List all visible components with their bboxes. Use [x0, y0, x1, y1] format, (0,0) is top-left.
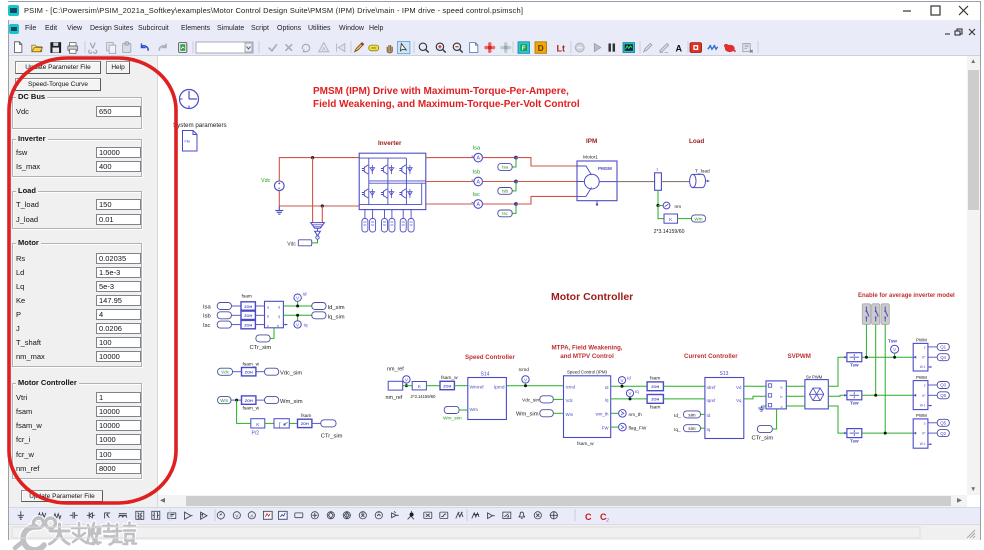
wire ZOH to abc-dq Isc: [255, 324, 264, 326]
window buttons: [895, 4, 975, 17]
wire to rpm gain: [658, 206, 664, 219]
label box Vdc_sim: [265, 368, 279, 375]
zero-order-hold theta: [298, 413, 312, 428]
wire dc bus bottom: [279, 191, 359, 206]
zero-order-hold Wm: [242, 396, 260, 412]
svg-text:CTr_sim: CTr_sim: [752, 436, 774, 442]
svg-text:Isc: Isc: [502, 211, 509, 216]
svg-text:nm_ref: nm_ref: [386, 395, 403, 401]
gain block rpm to rad: [412, 382, 426, 391]
node junction on bottom bus: [321, 204, 324, 207]
svg-text:d: d: [278, 305, 280, 309]
svg-text:V: V: [296, 296, 300, 301]
svg-text:2*3.14159/60: 2*3.14159/60: [654, 229, 685, 235]
wire ZOH to CTr_sim label: [312, 422, 321, 424]
voltage sensor on dc bus: [311, 223, 325, 240]
svg-text:A: A: [476, 180, 480, 186]
wire comparator out row1: [862, 356, 913, 358]
node junction phase c: [514, 202, 518, 206]
svg-text:K: K: [256, 422, 260, 428]
svg-text:0*: 0*: [922, 394, 926, 398]
svg-text:ZOH: ZOH: [245, 399, 253, 403]
svg-text:Vq: Vq: [736, 398, 742, 403]
wire switch1 down: [865, 325, 867, 358]
wire mux b to svpwm: [786, 395, 805, 397]
ammeter Ic: [472, 200, 483, 209]
wire comparator out row3: [862, 432, 913, 434]
gain block rpm-to-rad: [664, 214, 678, 223]
mtpa control block: [564, 376, 611, 438]
svg-text:Wm_sim: Wm_sim: [443, 416, 462, 422]
wire Vq to mux: [744, 396, 766, 399]
label box wm source: [218, 397, 231, 404]
label box CTr_sim theta: [256, 335, 270, 342]
svg-text:ZOH: ZOH: [244, 314, 252, 318]
wire zoh to Idref: [663, 385, 705, 387]
svg-text:ZOH: ZOH: [244, 305, 252, 309]
wire wmsim to block: [553, 412, 563, 414]
dc source Vdc: [261, 178, 284, 191]
svg-text:Vd: Vd: [736, 385, 742, 390]
svg-text:K: K: [669, 217, 673, 223]
wire gain to wm label: [678, 218, 692, 220]
svg-text:PWM: PWM: [916, 413, 927, 418]
svg-text:Tsw: Tsw: [850, 363, 859, 368]
svg-text:Inverter: Inverter: [378, 140, 402, 147]
svg-text:Wm_sim: Wm_sim: [280, 399, 303, 405]
svg-text:c: c: [267, 324, 269, 328]
comparator Tsw row2: [844, 391, 862, 406]
wire inverter phase b to ammeter: [426, 181, 474, 183]
label box Isb: [498, 188, 512, 195]
svg-text:Isa: Isa: [473, 145, 482, 151]
label box Iq_sim out: [312, 312, 326, 319]
label box Wm_sim: [265, 397, 279, 404]
svg-text:Speed Controller: Speed Controller: [465, 354, 515, 361]
svg-text:1: 1: [656, 167, 659, 172]
svg-text:Icmd: Icmd: [566, 385, 576, 390]
svg-text:Motor1: Motor1: [583, 155, 598, 161]
svg-text:Id_sim: Id_sim: [328, 305, 345, 311]
svg-text:nm: nm: [675, 205, 682, 210]
svg-text:flag_FW: flag_FW: [629, 426, 647, 432]
svg-text:F: F: [522, 45, 526, 52]
ammeter Ia: [472, 153, 483, 162]
motor block PMSM Motor1: [577, 161, 617, 206]
svg-text:Vdc: Vdc: [261, 178, 271, 184]
svg-text:Iq_: Iq_: [674, 427, 681, 433]
svg-text:Isb: Isb: [203, 314, 211, 320]
svg-text:Tsw: Tsw: [850, 438, 859, 443]
svg-text:Q1: Q1: [940, 345, 946, 350]
integrator block: [274, 419, 289, 429]
svg-text:Vdc_sim: Vdc_sim: [522, 398, 540, 404]
gating blocks for inverter: [362, 210, 414, 232]
label box wm: [692, 215, 706, 222]
svg-text:SVPWM: SVPWM: [788, 353, 811, 360]
voltage probe Id meas: [294, 292, 307, 308]
svg-text:wm_th: wm_th: [596, 412, 609, 417]
wire inverter phase a to ammeter: [426, 157, 474, 159]
svg-text:Speed Control (IPM): Speed Control (IPM): [567, 370, 608, 375]
svg-text:s: s: [924, 421, 926, 425]
svg-text:CTr_sim: CTr_sim: [321, 434, 343, 440]
wire switch2 down: [875, 325, 877, 396]
svg-text:fsam: fsam: [650, 405, 660, 411]
svg-text:a: a: [780, 385, 783, 389]
step source nm_ref: [388, 381, 403, 390]
wire node to label Isc: [512, 204, 516, 213]
wire inverter phase c to ammeter: [426, 203, 474, 205]
svg-text:Enable for average inverter mo: Enable for average inverter model: [858, 293, 955, 299]
svg-text:Vdc: Vdc: [221, 370, 230, 375]
svg-text:Vdc: Vdc: [566, 398, 574, 403]
label box Vdc_sim input: [540, 396, 554, 403]
svg-text:Isc: Isc: [473, 192, 481, 198]
ammeter Ib: [472, 177, 483, 186]
svg-text:Iqref: Iqref: [707, 398, 717, 403]
svg-text:V: V: [296, 322, 300, 327]
round sink flag_FW: [611, 423, 647, 431]
wire ZOH to abc-dq Isa: [255, 305, 264, 307]
wire idsim feed: [701, 413, 705, 415]
zero-order-hold Vdc: [242, 361, 260, 376]
node junction wm: [235, 399, 238, 402]
svg-text:PWM: PWM: [916, 338, 927, 343]
svg-text:A: A: [676, 44, 683, 54]
svg-text:Isc: Isc: [203, 323, 211, 329]
svg-text:0*: 0*: [922, 356, 926, 360]
svg-text:Isb: Isb: [473, 169, 481, 175]
svg-text:V: V: [405, 377, 409, 382]
horizontal scrollbar: [160, 496, 165, 506]
svg-text:0*: 0*: [922, 432, 926, 436]
node junction on top bus: [311, 156, 314, 159]
svg-text:Wm: Wm: [220, 398, 228, 403]
svg-text:V: V: [629, 391, 632, 396]
round sink nm_th: [611, 410, 642, 418]
wire node to label Isb: [512, 182, 516, 191]
svg-text:W-1: W-1: [920, 442, 926, 446]
svg-text:Current Controller: Current Controller: [684, 353, 738, 360]
svg-text:Q6: Q6: [940, 393, 946, 398]
wire motor shaft: [617, 181, 655, 183]
svg-text:fsam_w: fsam_w: [243, 406, 260, 412]
svg-text:T_load: T_load: [695, 169, 710, 175]
svg-text:Motor Controller: Motor Controller: [551, 291, 633, 303]
pwm gating block 1 with labels Q1 Q4: [913, 338, 949, 371]
node junction speed: [656, 204, 659, 207]
svg-text:File: File: [185, 140, 191, 144]
svg-text:ZOH: ZOH: [245, 371, 253, 375]
svg-text:c: c: [781, 405, 783, 409]
wire ZOH to speed controller: [454, 385, 467, 387]
svg-text:b: b: [780, 395, 782, 399]
voltage probe Tsw: [888, 339, 899, 359]
vertical scrollbar: [970, 57, 976, 67]
svg-text:Isa: Isa: [502, 165, 509, 170]
svg-text:Vdc_sim: Vdc_sim: [280, 371, 302, 377]
wire sensor output: [312, 239, 318, 243]
voltage probe nm_ref: [403, 376, 410, 388]
svg-text:b: b: [267, 315, 269, 319]
mux block dq0: [766, 381, 786, 409]
wire wm_sim to block: [459, 409, 468, 411]
mechanical load T_load: [690, 169, 710, 188]
node junction phase a: [514, 156, 518, 160]
svg-text:FW: FW: [602, 426, 610, 431]
svg-text:S14: S14: [481, 372, 490, 378]
wire mux c to svpwm: [786, 405, 805, 407]
svg-text:P/2: P/2: [252, 431, 260, 437]
svg-text:W-1: W-1: [920, 365, 926, 369]
svg-text:ZOH: ZOH: [651, 398, 659, 402]
label box Vdc source: [218, 368, 233, 375]
wire coupling to load shaft: [661, 181, 689, 183]
svg-text:Icmd: Icmd: [519, 367, 530, 373]
speed controller block S14: [468, 378, 507, 420]
svg-text:fsam_w: fsam_w: [577, 441, 594, 447]
svg-text:PMSM (IPM) Drive with Maximum-: PMSM (IPM) Drive with Maximum-Torque-Per…: [313, 86, 569, 97]
ground at mux: [758, 406, 766, 411]
svg-text:Wm: Wm: [694, 216, 702, 221]
svg-text:A: A: [476, 202, 480, 208]
wire Isc to ZOH: [231, 324, 241, 326]
label box Wm_sim input: [540, 410, 554, 417]
label Vdc at sensor output: [287, 240, 311, 248]
svg-text:Q5: Q5: [940, 421, 946, 426]
wire wm to ZOH: [231, 399, 242, 401]
svg-text:fsam_w: fsam_w: [243, 361, 260, 367]
inverter bridge block: [359, 153, 426, 209]
svg-text:fsam: fsam: [650, 376, 660, 382]
svg-text:Wm: Wm: [566, 412, 574, 417]
wire switch3 down: [884, 325, 886, 434]
wire ammeter to node c: [483, 203, 517, 205]
svg-text:System parameters: System parameters: [173, 122, 227, 129]
wire Id out to zoh: [611, 385, 647, 387]
svg-text:ZOH: ZOH: [443, 384, 451, 388]
wire ZOH to Vdc_sim: [256, 371, 265, 373]
wire wm junction down to gain: [237, 400, 251, 423]
svg-text:Q2: Q2: [940, 431, 946, 436]
wire q output: [283, 314, 311, 316]
pwm gating block 3 with labels Q5 Q2: [913, 413, 949, 448]
svg-text:Sv PWM: Sv PWM: [806, 375, 823, 380]
node junction phase b: [514, 180, 518, 184]
svg-text:Load: Load: [689, 138, 704, 145]
parameter file element parameters-main.txt: [183, 131, 198, 152]
svg-text:fsam: fsam: [301, 413, 311, 419]
zero-order-hold wmref: [440, 375, 458, 390]
schematic title text: [313, 86, 580, 110]
wire sensor tap from top bus: [312, 158, 314, 223]
svg-text:fsam_w: fsam_w: [441, 375, 458, 381]
wire phase b to motor: [516, 181, 577, 183]
label box Isb input: [217, 312, 231, 319]
svg-text:fsam: fsam: [242, 294, 252, 300]
svg-text:ZOH: ZOH: [651, 385, 659, 389]
svg-text:Vdc: Vdc: [287, 241, 296, 247]
wire phase c to motor: [516, 196, 577, 204]
wire comparator out row2: [862, 394, 913, 396]
label box Isa: [498, 164, 512, 171]
zero-order-hold Isb: [241, 311, 255, 319]
svg-text:Q3: Q3: [940, 383, 946, 388]
svg-text:V: V: [893, 347, 896, 352]
svg-text:s: s: [924, 345, 926, 349]
svg-text:Tsw: Tsw: [850, 401, 859, 406]
svg-text:V: V: [621, 378, 624, 383]
svg-text:V: V: [524, 377, 528, 382]
label box Isc: [498, 210, 512, 217]
speed sensor nm: [658, 202, 681, 210]
top toolbar icons: [0, 0, 780, 56]
svg-text:sim: sim: [688, 426, 695, 431]
enable switches group: [862, 304, 889, 325]
zero-order-hold Idref: [647, 376, 663, 391]
svg-text:K: K: [418, 384, 422, 390]
current controller block S13: [705, 378, 744, 439]
svg-text:ZOH: ZOH: [301, 422, 309, 426]
svg-text:Id_: Id_: [674, 413, 681, 419]
svg-text:Isa: Isa: [203, 304, 212, 310]
abc-to-dq transform block: [265, 301, 288, 328]
wire vdcsim to block: [553, 398, 563, 400]
wire Isa to ZOH: [231, 305, 241, 307]
schematic canvas: [158, 56, 967, 495]
svg-text:Id: Id: [303, 292, 307, 298]
svg-text:a: a: [267, 305, 270, 309]
svg-text:sim: sim: [688, 412, 695, 417]
label box Isa input: [217, 303, 231, 310]
svg-text:S13: S13: [720, 371, 729, 377]
wire Vdc to ZOH: [233, 371, 242, 373]
wire gain to integrator: [265, 422, 274, 424]
svg-text:Tsw: Tsw: [888, 339, 897, 345]
gain block P/2: [251, 419, 265, 437]
svg-text:Iq: Iq: [304, 323, 308, 329]
svg-text:Q4: Q4: [940, 355, 946, 360]
svg-text:IPM: IPM: [586, 138, 597, 145]
wire sensor tap from bottom bus: [321, 206, 323, 223]
svg-text:A: A: [322, 47, 326, 53]
wire svpwm out3: [828, 406, 847, 433]
label box CTr_sim out: [321, 420, 336, 427]
wire d output: [283, 305, 311, 307]
voltage probe Iq cmd: [626, 389, 639, 400]
svg-text:W-1: W-1: [920, 404, 926, 408]
label MTPA Field Weakening: [552, 345, 623, 361]
svg-text:CTr_sim: CTr_sim: [250, 345, 272, 351]
voltage probe Iq meas: [294, 314, 308, 329]
svg-text:A: A: [476, 156, 480, 162]
svg-text:s: s: [924, 384, 926, 388]
wire Ipmd output: [506, 385, 563, 387]
zero-order-hold Isa: [241, 302, 255, 310]
svg-text:Isb: Isb: [502, 189, 509, 194]
wire Iq out to zoh: [611, 398, 647, 400]
voltage probe Icmd: [519, 367, 530, 387]
wire Isb to ZOH: [231, 314, 241, 316]
svg-text:Lt: Lt: [557, 44, 566, 54]
wire gain to ZOH nmref: [426, 385, 440, 387]
wire ammeter to node a: [483, 157, 517, 159]
svg-text:Id: Id: [605, 385, 609, 390]
wire svpwm out1: [828, 357, 847, 386]
comparator Tsw row3: [844, 429, 862, 444]
zero-order-hold Iqref: [647, 395, 663, 411]
svg-text:D: D: [538, 44, 544, 53]
pwm gating block 2 with labels Q3 Q6: [913, 375, 949, 410]
svpwm block: [805, 380, 828, 409]
svg-text:PWM: PWM: [916, 375, 927, 380]
wire ZOH to abc-dq Isb: [255, 314, 264, 316]
left parameter panel content: [15, 61, 101, 74]
svg-text:Wmref: Wmref: [470, 385, 485, 391]
wire iqsim feed: [701, 427, 705, 429]
label box Isc input: [217, 321, 231, 328]
svg-text:nm_ref: nm_ref: [387, 367, 404, 373]
label box Wm_sim into speed ctrl: [444, 406, 459, 413]
clock element (system timer): [180, 90, 199, 109]
svg-text:2*3.14159/60: 2*3.14159/60: [411, 394, 437, 399]
voltage probe Id cmd: [618, 376, 631, 388]
svg-text:Id: Id: [707, 413, 711, 418]
wire zoh to Iqref: [663, 398, 705, 400]
label box Id_sim feed: [684, 411, 701, 418]
wire svpwm out2: [828, 394, 847, 397]
wire CTr_sim to theta pin: [270, 328, 274, 339]
label box CTr_sim feed: [757, 425, 772, 432]
svg-text:Iq_sim: Iq_sim: [328, 314, 345, 320]
svg-text:Iq: Iq: [605, 398, 609, 403]
svg-text:PMSM: PMSM: [598, 166, 612, 171]
svg-text:Iq: Iq: [707, 427, 711, 432]
wire speed sensor tap: [657, 190, 659, 205]
svg-text:q: q: [278, 315, 280, 319]
wire phase a to motor: [516, 158, 577, 166]
wire Vd to mux: [744, 385, 766, 387]
comparator Tsw row1: [844, 353, 862, 368]
label box Id_sim out: [312, 303, 326, 310]
wire ammeter to node b: [483, 181, 517, 183]
zero-order-hold Isc: [241, 320, 255, 328]
svg-text:and MTPV Control: and MTPV Control: [560, 353, 614, 360]
svg-text:Iq: Iq: [635, 389, 639, 394]
mechanical coupling block: [655, 167, 662, 191]
svg-text:Wm_sim: Wm_sim: [516, 412, 539, 418]
svg-text:e: e: [277, 324, 279, 328]
svg-text:Field Weakening, and Maximum-T: Field Weakening, and Maximum-Torque-Per-…: [313, 99, 580, 110]
svg-text:ZOH: ZOH: [244, 323, 252, 327]
wire node to label Isa: [512, 158, 516, 167]
svg-text:∫: ∫: [278, 421, 281, 428]
ground: [275, 206, 283, 214]
wire integrator to ZOH: [289, 422, 297, 424]
wire source to gain: [403, 385, 413, 387]
wire dc bus top: [279, 158, 359, 181]
svg-text:Ipmd: Ipmd: [494, 385, 505, 391]
svg-text:Idref: Idref: [707, 385, 717, 390]
label box Iq_sim feed: [684, 425, 701, 432]
wire ZOH to Wm_sim: [256, 399, 265, 401]
igbt switches Q1-Q6 inside inverter: [362, 165, 412, 198]
svg-text:Id: Id: [627, 376, 631, 381]
svg-text:nm_th: nm_th: [629, 412, 643, 418]
svg-text:Wm: Wm: [470, 407, 479, 413]
wire ctrsim to mux: [772, 409, 776, 429]
